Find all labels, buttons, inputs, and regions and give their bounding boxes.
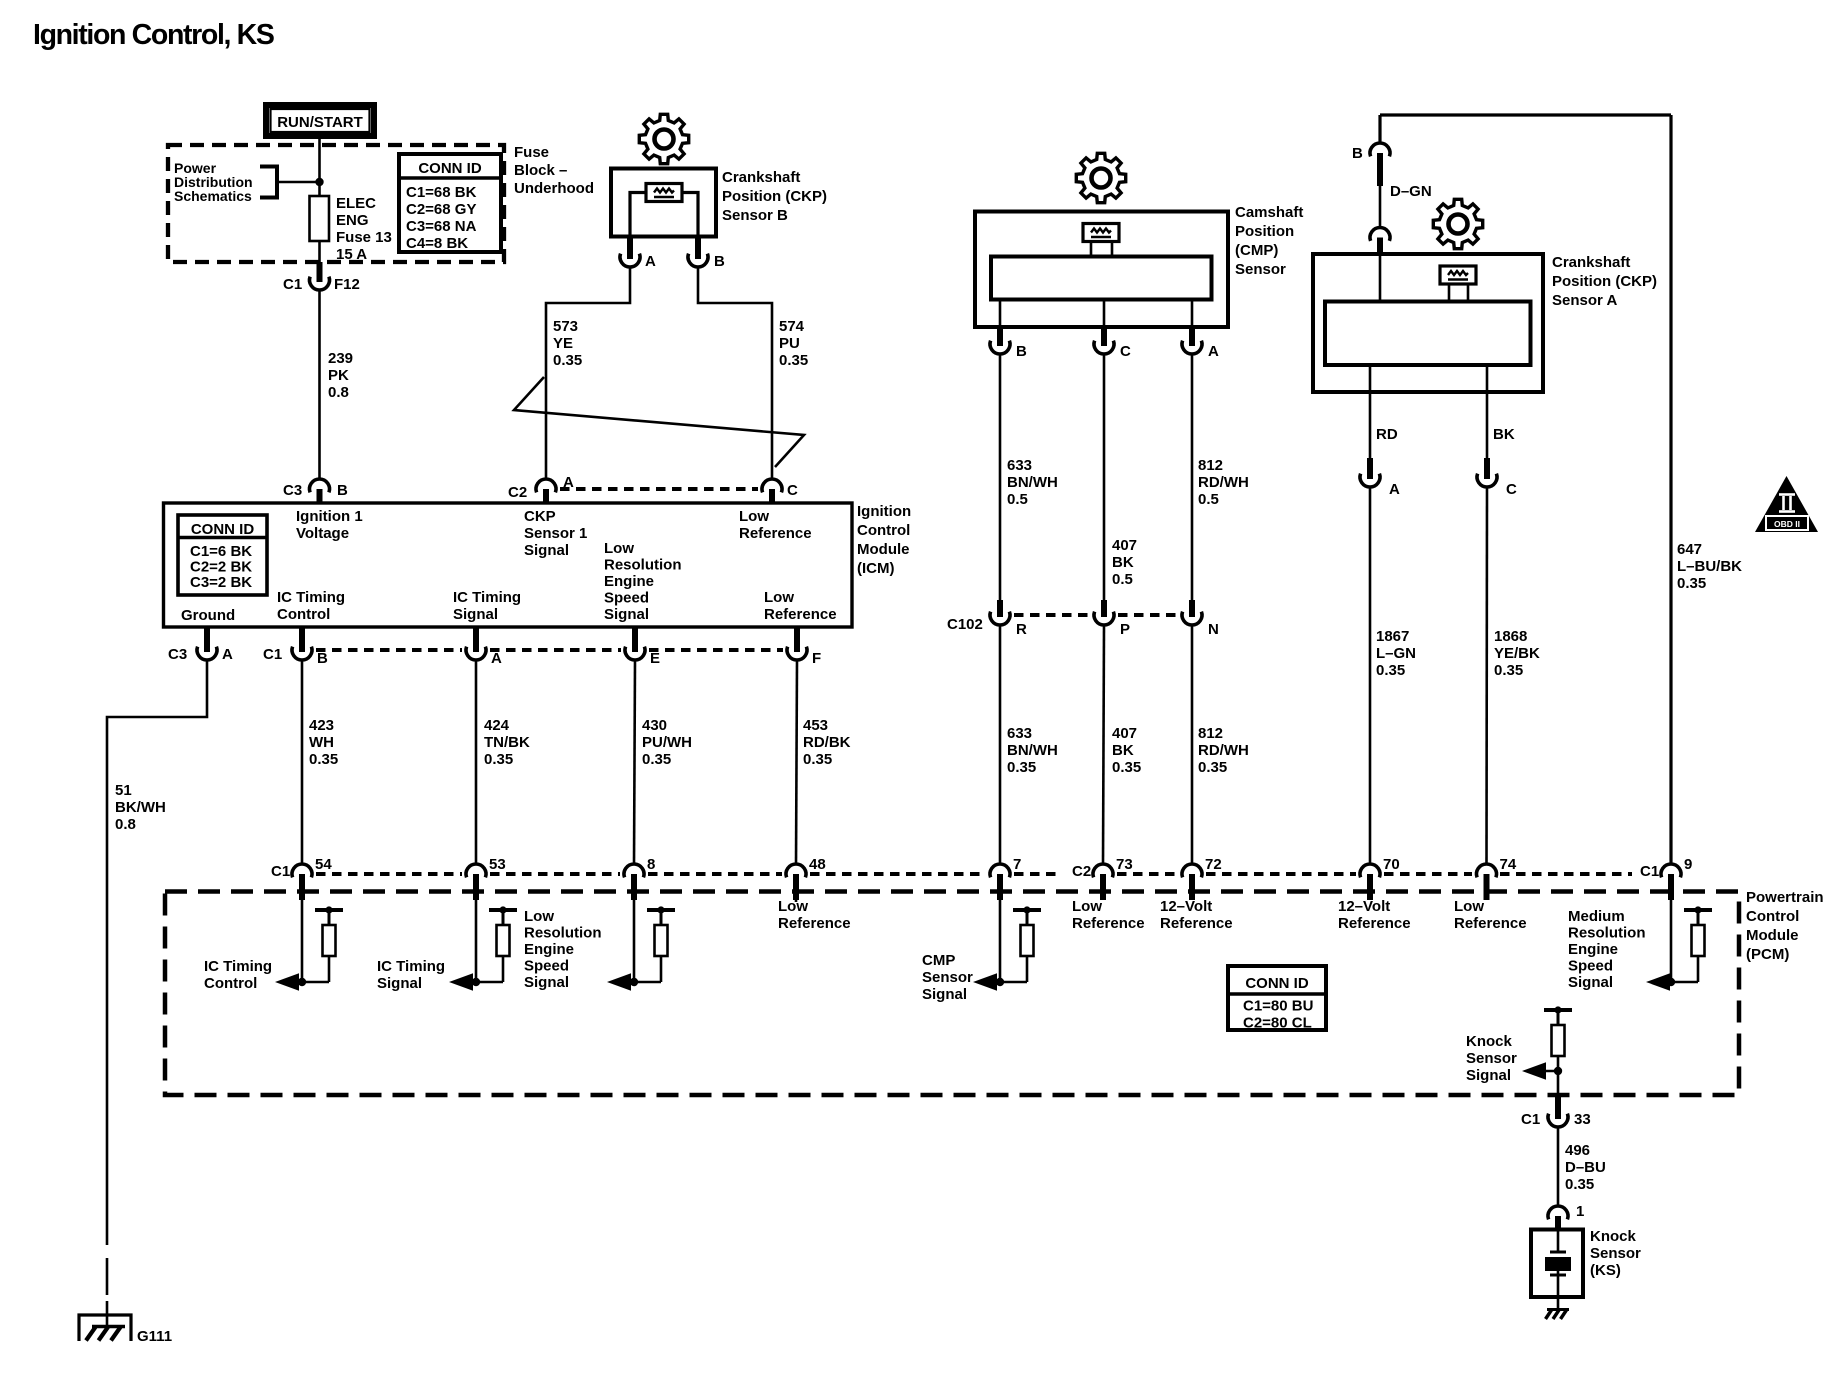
svg-text:15 A: 15 A [336, 246, 367, 263]
svg-text:Sensor: Sensor [1235, 261, 1286, 278]
svg-text:Reference: Reference [778, 915, 851, 932]
sensor element CKP A [1440, 266, 1476, 284]
sensor lead right [682, 193, 698, 237]
svg-text:Module: Module [1746, 927, 1799, 944]
crankshaft position CKP sensor A box [1313, 254, 1543, 392]
medium resolution engine speed signal signal line [1665, 981, 1698, 984]
svg-text:Crankshaft: Crankshaft [722, 169, 800, 186]
svg-text:53: 53 [489, 856, 506, 873]
svg-text:WH: WH [309, 734, 334, 751]
wire 647 L-BU/BK [1669, 115, 1672, 864]
svg-text:D–GN: D–GN [1390, 183, 1432, 200]
wire to ground [106, 1301, 109, 1327]
CMP sensor signal arrow [973, 973, 997, 990]
powertrain control module box [165, 892, 1739, 1096]
dashed connector line R-P [1014, 613, 1090, 617]
svg-text:BN/WH: BN/WH [1007, 474, 1058, 491]
IC timing control wire [301, 900, 304, 982]
svg-text:N: N [1208, 621, 1219, 638]
svg-text:Ignition: Ignition [857, 503, 911, 520]
svg-text:Sensor A: Sensor A [1552, 292, 1617, 309]
svg-text:PU/WH: PU/WH [642, 734, 692, 751]
svg-text:TN/BK: TN/BK [484, 734, 530, 751]
svg-text:Resolution: Resolution [524, 925, 602, 942]
dashed connector line A-E [490, 648, 621, 652]
svg-text:B: B [337, 482, 348, 499]
svg-text:Signal: Signal [1568, 974, 1613, 991]
sensor element CMP [1083, 224, 1119, 242]
svg-text:Sensor: Sensor [1466, 1050, 1517, 1067]
svg-text:Block –: Block – [514, 162, 567, 179]
svg-text:Sensor: Sensor [1590, 1245, 1641, 1262]
svg-text:1868: 1868 [1494, 628, 1527, 645]
svg-text:Low: Low [778, 898, 808, 915]
wire fuse to C1 pin [318, 241, 321, 262]
wire 423 WH [301, 660, 304, 864]
pin A CKP A [1367, 458, 1373, 479]
OBD II symbol [1755, 476, 1818, 532]
svg-text:C4=8 BK: C4=8 BK [406, 235, 468, 252]
wire RUN/START to fuse [318, 138, 321, 196]
IC timing signal pullup resistor [489, 906, 517, 956]
svg-text:CONN ID: CONN ID [418, 160, 482, 177]
svg-text:0.35: 0.35 [484, 751, 513, 768]
wire 496 D-BU [1557, 1127, 1560, 1206]
svg-text:633: 633 [1007, 457, 1032, 474]
svg-text:Reference: Reference [1338, 915, 1411, 932]
pin P C102 [1101, 600, 1107, 617]
svg-text:(CMP): (CMP) [1235, 242, 1278, 259]
svg-text:0.5: 0.5 [1007, 491, 1028, 508]
wire 812 RD/WH to PCM [1191, 625, 1194, 864]
svg-text:F12: F12 [334, 276, 360, 293]
medium resolution engine speed signal junction [1667, 978, 1675, 986]
svg-text:Module: Module [857, 541, 910, 558]
svg-text:RD: RD [1376, 426, 1398, 443]
wire to connector B [1378, 115, 1381, 143]
fuse ELEC ENG Fuse 13 15A [310, 196, 330, 241]
svg-text:70: 70 [1383, 856, 1400, 873]
low resolution engine speed signal junction [630, 978, 638, 986]
svg-text:7: 7 [1013, 856, 1021, 873]
svg-text:Control: Control [204, 975, 257, 992]
svg-text:0.5: 0.5 [1198, 491, 1219, 508]
CONN ID table ICM [178, 515, 267, 595]
KS internal wire [1557, 1229, 1560, 1252]
svg-text:407: 407 [1112, 537, 1137, 554]
pin E low res engine speed [632, 627, 638, 652]
svg-text:Ignition Control, KS: Ignition Control, KS [33, 19, 274, 51]
svg-text:C: C [1120, 343, 1131, 360]
svg-text:1867: 1867 [1376, 628, 1409, 645]
svg-text:Sensor B: Sensor B [722, 207, 788, 224]
wire 633 BN/WH to PCM [999, 625, 1002, 864]
crankshaft position CKP sensor B box [611, 169, 716, 237]
connector pin B CKP B [688, 254, 708, 267]
svg-text:812: 812 [1198, 457, 1223, 474]
pin F12 [317, 262, 323, 282]
pin A ground [204, 627, 210, 652]
dashed connector line P-N [1118, 613, 1178, 617]
svg-text:0.5: 0.5 [1112, 571, 1133, 588]
svg-text:430: 430 [642, 717, 667, 734]
CMP sensor signal signal line [992, 981, 1027, 984]
wire 1868 YE/BK [1485, 487, 1488, 864]
svg-text:0.35: 0.35 [1007, 759, 1036, 776]
svg-text:C102: C102 [947, 616, 983, 633]
svg-text:Speed: Speed [524, 958, 569, 975]
svg-text:8: 8 [647, 856, 655, 873]
CKP A inner bar [1325, 302, 1531, 366]
svg-text:Signal: Signal [524, 974, 569, 991]
svg-text:Resolution: Resolution [604, 557, 682, 574]
svg-text:R: R [1016, 621, 1027, 638]
svg-text:C1: C1 [1640, 863, 1659, 880]
svg-text:C: C [787, 482, 798, 499]
svg-text:ENG: ENG [336, 212, 369, 229]
connector C3 B ICM [310, 479, 330, 492]
svg-text:812: 812 [1198, 725, 1223, 742]
svg-text:RD/BK: RD/BK [803, 734, 851, 751]
svg-text:A: A [1389, 481, 1400, 498]
svg-text:YE: YE [553, 335, 573, 352]
svg-text:0.8: 0.8 [328, 384, 349, 401]
sensor stem left [1090, 242, 1093, 257]
medium resolution engine speed signal pullup resistor [1684, 906, 1712, 956]
svg-text:647: 647 [1677, 541, 1702, 558]
svg-text:OBD II: OBD II [1774, 519, 1800, 529]
low resolution engine speed signal wire [633, 900, 636, 982]
svg-text:A: A [491, 650, 502, 667]
svg-text:51: 51 [115, 782, 132, 799]
dashed connector line B-A [316, 648, 462, 652]
connector pin 7 PCM [990, 864, 1010, 877]
svg-text:L–GN: L–GN [1376, 645, 1416, 662]
connector C2 A ICM [536, 479, 556, 492]
svg-text:Low: Low [764, 589, 794, 606]
svg-text:Engine: Engine [524, 941, 574, 958]
pin A CKP B [627, 236, 633, 259]
svg-text:RD/WH: RD/WH [1198, 742, 1249, 759]
sensor stem left [1448, 284, 1451, 302]
low resolution engine speed signal signal line [626, 981, 661, 984]
svg-text:Signal: Signal [524, 542, 569, 559]
dashed connector line PCM row [316, 872, 462, 876]
svg-text:C2=2 BK: C2=2 BK [190, 559, 252, 576]
IC timing signal junction [472, 978, 480, 986]
CONN ID table PCM [1228, 966, 1326, 1030]
pin B IC timing control [299, 627, 305, 652]
svg-text:48: 48 [809, 856, 826, 873]
svg-text:633: 633 [1007, 725, 1032, 742]
svg-text:Fuse 13: Fuse 13 [336, 229, 392, 246]
svg-text:B: B [1352, 145, 1363, 162]
connector pin 1 KS [1548, 1206, 1568, 1219]
svg-text:0.35: 0.35 [1112, 759, 1141, 776]
connector C ICM [762, 479, 782, 492]
svg-text:C1: C1 [271, 863, 290, 880]
wire RD [1369, 365, 1372, 458]
gear icon CMP [1076, 153, 1125, 202]
svg-text:Camshaft: Camshaft [1235, 204, 1303, 221]
svg-text:PK: PK [328, 367, 349, 384]
wire top feed [1380, 113, 1671, 116]
KS piezo element [1550, 1251, 1566, 1254]
svg-text:Engine: Engine [604, 573, 654, 590]
svg-text:Reference: Reference [739, 525, 812, 542]
connector pin A CKP B [620, 254, 640, 267]
svg-text:IC Timing: IC Timing [453, 589, 521, 606]
wire inside CKP A [1379, 254, 1382, 302]
svg-text:407: 407 [1112, 725, 1137, 742]
svg-text:D–BU: D–BU [1565, 1159, 1606, 1176]
svg-text:Reference: Reference [1072, 915, 1145, 932]
svg-text:Reference: Reference [1160, 915, 1233, 932]
wire KS to ground [1557, 1297, 1560, 1309]
IC timing control arrow [275, 973, 299, 990]
svg-text:Ground: Ground [181, 607, 235, 624]
svg-text:CKP: CKP [524, 508, 556, 525]
svg-text:0.35: 0.35 [309, 751, 338, 768]
svg-text:Position: Position [1235, 223, 1294, 240]
junction [315, 178, 323, 186]
svg-text:IC Timing: IC Timing [204, 958, 272, 975]
svg-text:33: 33 [1574, 1111, 1591, 1128]
svg-text:Signal: Signal [377, 975, 422, 992]
svg-text:C3: C3 [283, 482, 302, 499]
svg-text:0.35: 0.35 [1677, 575, 1706, 592]
medium resolution engine speed signal wire [1670, 900, 1673, 982]
svg-text:B: B [317, 650, 328, 667]
wire 424 TN/BK [475, 660, 478, 864]
svg-text:Medium: Medium [1568, 908, 1625, 925]
connector pin 54 PCM [292, 864, 312, 877]
svg-text:Knock: Knock [1590, 1228, 1637, 1245]
svg-text:C: C [1506, 481, 1517, 498]
svg-text:Signal: Signal [1466, 1067, 1511, 1084]
svg-text:0.35: 0.35 [1376, 662, 1405, 679]
wire break segment [106, 1258, 109, 1295]
svg-text:Engine: Engine [1568, 941, 1618, 958]
svg-text:CONN ID: CONN ID [1245, 975, 1309, 992]
wire from reference to fuse [277, 181, 320, 184]
svg-text:C3=68 NA: C3=68 NA [406, 218, 477, 235]
svg-text:573: 573 [553, 318, 578, 335]
svg-text:Schematics: Schematics [174, 188, 252, 204]
lead A [1191, 300, 1194, 328]
gear icon CKP A [1433, 199, 1482, 248]
svg-text:Voltage: Voltage [296, 525, 349, 542]
svg-text:Crankshaft: Crankshaft [1552, 254, 1630, 271]
wire 239 PK [318, 290, 321, 479]
connector pin 9 PCM [1661, 864, 1681, 877]
connector C1 F12 [310, 277, 330, 290]
IC timing control pullup resistor [315, 906, 343, 956]
svg-text:Low: Low [739, 508, 769, 525]
wire 1867 L-GN [1369, 487, 1372, 864]
svg-text:P: P [1120, 621, 1130, 638]
connector pin 8 PCM [624, 864, 644, 877]
svg-text:Reference: Reference [764, 606, 837, 623]
IC timing control signal line [294, 981, 329, 984]
svg-text:54: 54 [315, 856, 332, 873]
svg-text:RUN/START: RUN/START [277, 114, 363, 131]
lead B [999, 300, 1002, 328]
svg-text:Speed: Speed [1568, 958, 1613, 975]
svg-text:574: 574 [779, 318, 805, 335]
svg-text:Ignition 1: Ignition 1 [296, 508, 363, 525]
svg-text:RD/WH: RD/WH [1198, 474, 1249, 491]
pin B CMP [997, 327, 1003, 346]
svg-text:9: 9 [1684, 856, 1692, 873]
knock sensor KS box [1531, 1230, 1583, 1298]
pin C CMP [1101, 327, 1107, 346]
svg-text:(KS): (KS) [1590, 1262, 1621, 1279]
svg-text:496: 496 [1565, 1142, 1590, 1159]
CMP sensor signal wire [999, 900, 1002, 982]
svg-text:F: F [812, 650, 821, 667]
connector into CKP A [1370, 227, 1390, 240]
svg-text:0.35: 0.35 [1198, 759, 1227, 776]
svg-text:Position (CKP): Position (CKP) [722, 188, 827, 205]
svg-text:C2: C2 [508, 484, 527, 501]
svg-text:E: E [650, 650, 660, 667]
camshaft position CMP sensor box [975, 212, 1228, 328]
svg-text:C1: C1 [263, 646, 282, 663]
svg-text:0.35: 0.35 [642, 751, 671, 768]
svg-text:453: 453 [803, 717, 828, 734]
ground knock sensor [1547, 1308, 1569, 1311]
svg-text:74: 74 [1500, 856, 1517, 873]
svg-text:0.8: 0.8 [115, 816, 136, 833]
connector B [1370, 143, 1390, 156]
svg-text:(ICM): (ICM) [857, 560, 895, 577]
svg-text:C1: C1 [283, 276, 302, 293]
IC timing signal signal line [468, 981, 503, 984]
svg-text:C2=68 GY: C2=68 GY [406, 201, 476, 218]
wire 51 BK/WH [107, 660, 207, 1245]
svg-text:YE/BK: YE/BK [1494, 645, 1540, 662]
svg-text:Reference: Reference [1454, 915, 1527, 932]
low reference pin 48 wire [795, 900, 798, 902]
svg-text:IC Timing: IC Timing [277, 589, 345, 606]
svg-text:0.35: 0.35 [553, 352, 582, 369]
knock sensor signal wire [1557, 1056, 1560, 1095]
svg-text:Low: Low [1072, 898, 1102, 915]
svg-text:Low: Low [604, 540, 634, 557]
pin C CKP A [1484, 458, 1490, 479]
svg-text:423: 423 [309, 717, 334, 734]
svg-text:Underhood: Underhood [514, 180, 594, 197]
wire BK [1486, 365, 1489, 458]
svg-text:Control: Control [857, 522, 910, 539]
RUN/START power feed box [266, 105, 374, 136]
svg-text:Signal: Signal [922, 986, 967, 1003]
lead C [1103, 300, 1106, 328]
knock sensor pullup resistor [1544, 1006, 1572, 1056]
svg-text:A: A [1208, 343, 1219, 360]
svg-text:Knock: Knock [1466, 1033, 1513, 1050]
IC timing signal wire [475, 900, 478, 982]
svg-text:B: B [1016, 343, 1027, 360]
wire 633 BN/WH [999, 354, 1002, 600]
svg-text:1: 1 [1576, 1203, 1584, 1220]
sensor stem right [1467, 284, 1470, 302]
svg-text:BN/WH: BN/WH [1007, 742, 1058, 759]
CONN ID table Fuse Block [399, 154, 501, 252]
svg-text:C3: C3 [168, 646, 187, 663]
svg-text:Signal: Signal [453, 606, 498, 623]
connector pin 70 PCM [1360, 864, 1380, 877]
sensor lead left [630, 193, 646, 237]
svg-text:Signal: Signal [604, 606, 649, 623]
pin R C102 [997, 600, 1003, 617]
svg-text:G111: G111 [137, 1328, 172, 1345]
svg-text:PU: PU [779, 335, 800, 352]
pin B CKP B [695, 236, 701, 259]
low resolution engine speed signal arrow [607, 973, 631, 990]
dashed connector line C2-C [560, 487, 758, 491]
svg-text:BK: BK [1112, 742, 1134, 759]
IC timing signal arrow [449, 973, 473, 990]
svg-text:12–Volt: 12–Volt [1160, 898, 1212, 915]
wire 574 PU [698, 267, 772, 479]
svg-text:239: 239 [328, 350, 353, 367]
svg-text:424: 424 [484, 717, 510, 734]
pin F low reference [794, 627, 800, 652]
medium resolution engine speed signal arrow [1646, 973, 1670, 990]
CMP sensor signal junction [996, 978, 1004, 986]
gear icon CKP B [639, 114, 688, 163]
ignition control module box [164, 503, 853, 627]
reference bracket [260, 167, 277, 198]
svg-text:12–Volt: 12–Volt [1338, 898, 1390, 915]
svg-text:A: A [222, 646, 233, 663]
pin 33 PCM [1555, 1095, 1561, 1119]
wire 453 RD/BK [796, 660, 797, 864]
svg-text:Powertrain: Powertrain [1746, 889, 1824, 906]
sensor stem right [1111, 242, 1114, 257]
svg-text:C1: C1 [1521, 1111, 1540, 1128]
connector pin 53 PCM [466, 864, 486, 877]
ground G111 [79, 1315, 131, 1341]
svg-text:Fuse: Fuse [514, 144, 549, 161]
svg-text:BK/WH: BK/WH [115, 799, 166, 816]
svg-text:0.35: 0.35 [803, 751, 832, 768]
svg-text:BK: BK [1112, 554, 1134, 571]
svg-text:Position (CKP): Position (CKP) [1552, 273, 1657, 290]
CMP sensor signal pullup resistor [1013, 906, 1041, 956]
junction [1554, 1067, 1562, 1075]
wire 407 BK [1103, 354, 1106, 600]
svg-text:ELEC: ELEC [336, 195, 376, 212]
svg-text:73: 73 [1116, 856, 1133, 873]
wire 812 RD/WH [1191, 354, 1194, 600]
connector pin 73 PCM [1093, 864, 1113, 877]
svg-text:0.35: 0.35 [1565, 1176, 1594, 1193]
connector pin 48 PCM [786, 864, 806, 877]
wire D-GN [1379, 186, 1382, 228]
fuse block dashed box [168, 145, 504, 262]
svg-text:A: A [645, 253, 656, 270]
sensor element CKP B [646, 184, 682, 202]
svg-text:L–BU/BK: L–BU/BK [1677, 558, 1742, 575]
svg-text:Low: Low [524, 908, 554, 925]
svg-text:B: B [714, 253, 725, 270]
IC timing control junction [298, 978, 306, 986]
svg-text:Low: Low [1454, 898, 1484, 915]
svg-text:Control: Control [277, 606, 330, 623]
